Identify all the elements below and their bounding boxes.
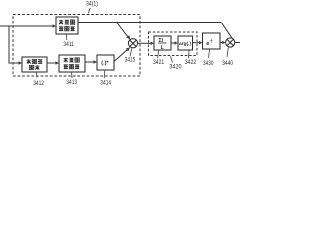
label 3421 <box>153 51 164 66</box>
svg-text:3415: 3415 <box>125 57 136 64</box>
label 3415 <box>125 48 136 63</box>
wire: 3430 to mixer 3440 <box>220 41 226 45</box>
svg-text:3440: 3440 <box>222 60 233 67</box>
label 3420 <box>169 56 181 70</box>
svg-text:3412: 3412 <box>33 80 44 87</box>
wire: output of mixer 3440 <box>235 42 240 44</box>
wire: buffer line diagonal down to mixer 3440 <box>222 23 233 39</box>
wire: mixer 3415 to 3421 <box>138 42 154 46</box>
mixer 3440 <box>226 38 235 47</box>
block 3422 arg(.) <box>178 36 193 50</box>
wire: branch down to delay 3412 <box>9 26 22 65</box>
block 3414 conjugate (.)* <box>97 55 114 70</box>
svg-text:34(1): 34(1) <box>86 0 98 7</box>
wire: buffer 3411 output line across to the right <box>78 22 221 24</box>
block 3412 N-symbol delay <box>22 57 47 72</box>
module box 3420 dashed border <box>149 32 198 56</box>
label 3412 <box>33 72 44 87</box>
svg-text:(.)*: (.)* <box>101 61 109 67</box>
svg-text:3422: 3422 <box>185 59 197 66</box>
svg-text:3413: 3413 <box>66 79 77 86</box>
wire: tap from buffer line down to mixer 3415 <box>116 22 130 40</box>
wire: 3421 to 3422 <box>171 41 178 45</box>
block 3413 N-symbol buffer (lower) <box>59 55 85 72</box>
wire: input line into buffer 3411 <box>0 24 56 28</box>
svg-text:3411: 3411 <box>63 41 74 48</box>
svg-text:3420: 3420 <box>169 63 181 70</box>
block 3411 N-symbol buffer <box>56 17 78 34</box>
wire: 3413 to 3414 <box>85 60 97 64</box>
wire: 3422 to 3430 <box>193 41 203 45</box>
wire: 3412 to 3413 <box>47 61 59 65</box>
svg-text:3414: 3414 <box>100 80 111 87</box>
svg-text:L: L <box>161 45 164 51</box>
label 3414 <box>100 70 111 87</box>
block 3430 e^-j(.) <box>203 33 221 49</box>
label 3440 <box>222 48 233 67</box>
module box 34(1) dashed border <box>13 15 140 77</box>
svg-text:3421: 3421 <box>153 59 164 66</box>
label 3422 <box>185 51 197 66</box>
block 3421 averager (1/L)sum <box>154 36 171 51</box>
wire: 3414 diagonal up to mixer 3415 <box>114 47 130 61</box>
svg-text:arg(.): arg(.) <box>179 41 191 47</box>
svg-text:3430: 3430 <box>203 60 214 67</box>
label 3411 <box>63 34 74 48</box>
svg-text:-j⋅: -j⋅ <box>210 39 214 43</box>
mixer 3415 <box>128 39 137 48</box>
label 3413 <box>66 72 77 86</box>
label 34(1) <box>86 0 98 13</box>
label 3430 <box>203 50 214 68</box>
